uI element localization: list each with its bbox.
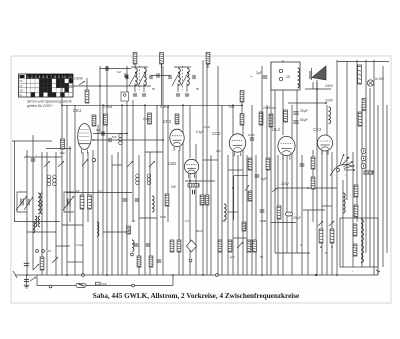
svg-text:0,1μF: 0,1μF xyxy=(196,130,204,134)
capacitor C58 xyxy=(96,282,101,285)
wire V22 xyxy=(149,152,151,275)
wire V45 xyxy=(270,62,272,275)
resistor R3 xyxy=(206,53,210,65)
terminal on bus B xyxy=(49,285,52,288)
wire V60 xyxy=(342,180,344,267)
svg-text:CF: CF xyxy=(19,85,23,88)
resistor R26 xyxy=(330,229,334,243)
resistor R29 xyxy=(137,256,141,267)
resistor R2 lead xyxy=(161,64,163,68)
wire V3 xyxy=(46,152,48,275)
junction d12 xyxy=(172,274,174,276)
wire V13 xyxy=(102,105,104,275)
IF transformer T1 tuning arrow 2 xyxy=(138,71,146,86)
capacitor C30 xyxy=(193,190,195,195)
svg-text:50μF: 50μF xyxy=(196,229,203,233)
pilot lamp 1 dot xyxy=(363,150,364,151)
tube pin terminal xyxy=(92,158,95,161)
jog i xyxy=(145,151,163,153)
resistor R13 xyxy=(266,158,270,170)
svg-text:CB: CB xyxy=(19,89,23,92)
bus end tick left xyxy=(13,271,17,278)
wire V66 xyxy=(369,88,371,267)
svg-text:2μF: 2μF xyxy=(256,71,262,75)
svg-text:20μF: 20μF xyxy=(293,216,301,220)
wire V28 xyxy=(189,105,191,158)
resistor R23 xyxy=(353,224,357,236)
svg-text:0,1: 0,1 xyxy=(96,128,100,132)
capacitor C11 xyxy=(125,73,127,77)
pilot lamp 3 xyxy=(361,164,366,169)
resistor R5 xyxy=(240,114,244,126)
choke coil xyxy=(343,193,345,213)
wire V12 xyxy=(97,125,99,275)
anode wire CK1 xyxy=(93,133,127,135)
wire V30 xyxy=(195,144,197,275)
IF transformer T2 trimmer cap 2 xyxy=(185,94,189,96)
wire V39 xyxy=(242,125,244,275)
field coil xyxy=(361,219,363,263)
IF feed wire xyxy=(100,68,131,70)
tube voltage table xyxy=(19,74,74,97)
svg-text:0,1: 0,1 xyxy=(98,189,102,193)
output transformer coil xyxy=(329,107,331,124)
svg-text:2×45 mA: 2×45 mA xyxy=(262,106,276,110)
wire V59 xyxy=(336,60,338,275)
svg-text:50μF: 50μF xyxy=(300,118,308,122)
fuse Si1 xyxy=(76,283,86,287)
wire V29 xyxy=(189,174,191,275)
wave coil W4 xyxy=(147,174,151,185)
capacitor C41 xyxy=(293,112,298,114)
return bus riser xyxy=(172,275,174,286)
resistor R11b xyxy=(148,113,152,124)
antenna coil L1b xyxy=(40,193,42,214)
resistor R17 xyxy=(362,99,366,111)
junction d24 xyxy=(307,187,309,189)
wire V64 xyxy=(361,105,363,267)
wire V58 xyxy=(331,152,333,275)
resistor R39 xyxy=(247,240,251,252)
IF transformer T2 secondary coil xyxy=(187,68,189,86)
wave coil W1 xyxy=(47,175,51,186)
junction d6 xyxy=(232,104,234,106)
resistor R43 xyxy=(61,139,65,149)
resistor R37 xyxy=(228,240,232,252)
pot arrow 2 xyxy=(329,221,334,226)
junction d13 xyxy=(202,274,204,276)
wire V63 xyxy=(356,60,358,222)
resistor R2 xyxy=(160,53,164,65)
cathode network wire xyxy=(271,222,296,224)
jog f xyxy=(139,217,157,219)
wire V55 xyxy=(316,82,318,275)
wire V2 xyxy=(41,152,43,275)
wire V70 xyxy=(386,105,388,253)
svg-text:0,2μF: 0,2μF xyxy=(203,125,210,129)
input circuit 2 tuning arrow xyxy=(63,196,74,210)
IF transformer T2 primary coil xyxy=(178,68,180,86)
HT wire 220V xyxy=(288,102,326,104)
resistor R1 xyxy=(133,53,137,65)
wire V40 xyxy=(246,155,248,275)
tube CB2 xyxy=(184,159,198,177)
svg-text:5nF: 5nF xyxy=(112,135,117,139)
wire V43 xyxy=(261,66,263,275)
svg-text:CL4: CL4 xyxy=(272,127,280,132)
schematic sheet frame xyxy=(11,56,391,303)
jog h xyxy=(322,205,332,207)
IF transformer T2 top wire xyxy=(174,66,191,68)
wire V0 xyxy=(26,150,28,275)
svg-text:8μF: 8μF xyxy=(60,151,65,155)
wire V56 xyxy=(321,148,323,275)
wire V26 xyxy=(178,150,180,275)
junction d9 xyxy=(126,133,128,135)
secondary drop wire xyxy=(307,210,309,275)
IF transformer T2 trimmer cap xyxy=(176,94,180,96)
capacitor C40 electrolytic xyxy=(285,212,292,216)
band switch S5 xyxy=(237,242,243,248)
resistor R1 lead xyxy=(134,64,136,68)
band switch S3 xyxy=(127,161,133,167)
resistor R7 xyxy=(85,90,89,103)
wire V19 xyxy=(132,100,134,222)
jog e xyxy=(56,245,70,247)
svg-text:5nF: 5nF xyxy=(101,283,107,287)
svg-text:5,2mA: 5,2mA xyxy=(160,105,169,109)
wire V44 xyxy=(266,105,268,275)
jog a xyxy=(203,159,218,161)
junction d16 xyxy=(106,274,108,276)
switch contact S7 xyxy=(245,185,249,191)
IF transformer T1 trimmer cap xyxy=(133,94,137,96)
wire V37 xyxy=(232,105,234,275)
capacitor C12 xyxy=(102,131,104,136)
resistor R19 xyxy=(311,157,315,169)
current arrow 6.13mA xyxy=(79,81,85,85)
svg-text:CF3: CF3 xyxy=(163,119,172,124)
coil L5 xyxy=(97,222,99,236)
filter coil W0 xyxy=(119,134,123,145)
capacitor C19 xyxy=(135,199,140,201)
gang arrow 2 xyxy=(24,197,33,210)
wire V68 xyxy=(377,105,379,275)
resistor R36 xyxy=(218,240,222,252)
svg-text:5μF: 5μF xyxy=(261,177,267,181)
resistor R16 mains xyxy=(358,65,362,84)
left rail xyxy=(14,141,16,222)
oscillator coil B xyxy=(38,216,40,227)
wire V34 xyxy=(217,66,219,275)
resistor R35 xyxy=(177,240,181,252)
resistor R6c xyxy=(284,110,288,122)
tuner link wire xyxy=(27,231,56,233)
wire V41 xyxy=(251,105,253,275)
IF transformer T2 tuning arrow 1 xyxy=(172,71,180,86)
svg-text:2nF: 2nF xyxy=(171,185,177,189)
tuner section top wire xyxy=(66,192,132,194)
pot arrow 1 xyxy=(318,221,323,226)
junction d22 xyxy=(189,180,191,182)
IF transformer T1 secondary coil xyxy=(144,68,146,86)
resistor R31 xyxy=(165,194,169,206)
svg-text:50: 50 xyxy=(260,255,264,259)
wire V32 xyxy=(206,64,208,275)
wire V67 xyxy=(373,60,375,275)
input circuit 1 bracket xyxy=(17,192,27,212)
dial lamp La xyxy=(367,80,373,86)
svg-text:Strom-und Spannungswerte: Strom-und Spannungswerte xyxy=(27,99,72,103)
IF transformer T1 input cap xyxy=(126,75,128,79)
band switch S2b xyxy=(82,159,88,166)
svg-text:CC2: CC2 xyxy=(212,131,221,136)
resistor R40 xyxy=(253,240,257,252)
IF transformer T1 top wire xyxy=(131,66,148,68)
wire V61 xyxy=(346,62,348,201)
resistor R12 xyxy=(248,158,252,170)
pilot lamp 3 dot xyxy=(363,165,364,166)
cathode return wire xyxy=(275,252,310,254)
mains dropper coil xyxy=(298,68,300,88)
svg-text:•: • xyxy=(36,153,37,157)
lower return bus wire xyxy=(37,285,173,287)
junction d1 xyxy=(61,104,63,106)
wire V69 xyxy=(382,66,384,267)
IF transformer T1 trimmer cap 2 xyxy=(142,94,146,96)
junction terminal C xyxy=(216,274,219,277)
resistor R9 xyxy=(188,184,199,187)
wire V4 xyxy=(55,152,57,275)
capacitor C21 xyxy=(146,244,151,246)
jog j xyxy=(228,211,238,213)
resistor R27 xyxy=(40,257,44,270)
IF transformer T1 primary coil xyxy=(135,68,137,86)
shield box xyxy=(121,92,129,101)
wire V24 xyxy=(162,66,164,275)
wire V7 xyxy=(69,146,71,222)
resistor R21 xyxy=(354,185,358,197)
AVC line xyxy=(62,85,151,87)
wire V51 xyxy=(291,105,293,275)
svg-text:7mA: 7mA xyxy=(228,105,235,109)
wire V65 xyxy=(365,60,367,253)
tuner top wire xyxy=(14,221,60,223)
svg-text:4nF: 4nF xyxy=(75,189,80,193)
capacitor C13 xyxy=(109,138,111,143)
resistor R20 xyxy=(311,177,315,189)
wire V47 xyxy=(277,155,279,275)
AGC return wire xyxy=(12,140,52,142)
capacitor C18 xyxy=(123,199,128,201)
wire V48 xyxy=(282,60,284,135)
R25 bottom dot xyxy=(320,246,322,248)
terminal below diamond xyxy=(189,259,192,262)
svg-text:2,7mA: 2,7mA xyxy=(102,105,112,109)
band switch S4 xyxy=(149,161,155,167)
capacitor C14 xyxy=(157,73,159,77)
grid wire CK1 xyxy=(93,139,163,141)
junction d21 xyxy=(325,102,327,104)
IF transformer T1 tuning arrow 1 xyxy=(129,71,137,86)
svg-text:CK: CK xyxy=(19,80,23,83)
resistor R33 xyxy=(205,195,209,205)
wire V49 xyxy=(282,155,284,275)
loudspeaker xyxy=(310,66,326,80)
tuning indicator diamond xyxy=(187,240,197,252)
junction dot D xyxy=(315,274,317,276)
capacitor C3 xyxy=(31,159,36,161)
junction d7 xyxy=(61,85,63,87)
svg-text:4nF: 4nF xyxy=(216,149,221,153)
wire V10 xyxy=(87,152,89,222)
junction d2 xyxy=(102,104,104,106)
wire V23 xyxy=(156,105,158,275)
terminal K1 xyxy=(36,250,39,253)
rectifier terminal 1 xyxy=(279,69,282,72)
svg-text:CB2: CB2 xyxy=(168,161,177,166)
resistor R3 lead xyxy=(207,64,209,68)
terminal L7 xyxy=(131,253,134,256)
resistor R10 xyxy=(92,115,96,126)
resistor R4 xyxy=(240,91,244,103)
svg-text:•: • xyxy=(352,269,353,273)
power top rail xyxy=(337,61,389,63)
rectifier terminal 2 xyxy=(279,77,282,80)
IF transformer T2 output cap xyxy=(193,75,195,79)
capacitor C44 xyxy=(263,76,268,78)
wire V38 xyxy=(237,155,239,275)
R26 bottom dot xyxy=(331,246,333,248)
wire V54 xyxy=(312,150,314,222)
bus end tick right xyxy=(377,271,379,275)
oscillator coil A xyxy=(35,216,37,227)
speaker lead 2 xyxy=(312,82,314,89)
output grid wire xyxy=(277,187,337,189)
junction d15 xyxy=(336,274,338,276)
svg-text:1M: 1M xyxy=(117,70,122,74)
capacitor C25 xyxy=(260,210,265,212)
screen supply line xyxy=(62,104,243,106)
R7 top lead xyxy=(86,78,88,90)
wire V20 xyxy=(138,155,140,275)
band switch S6 xyxy=(52,257,58,263)
resistor R14 xyxy=(248,191,252,201)
resistor R6b xyxy=(269,114,273,127)
wire V42 xyxy=(255,155,257,275)
wire V57 xyxy=(326,105,328,275)
svg-text:30μF: 30μF xyxy=(300,109,308,113)
wire V14 xyxy=(106,66,108,275)
tube CC2 xyxy=(229,134,245,156)
transformer secondary wire xyxy=(303,209,325,211)
junction d4 xyxy=(144,104,146,106)
svg-text:π: π xyxy=(300,243,302,247)
jog g xyxy=(112,164,122,166)
feedback box xyxy=(234,175,248,177)
junction d18 xyxy=(26,274,28,276)
IF transformer T2 screen divider xyxy=(182,66,184,90)
pilot lamp 1 xyxy=(361,149,366,154)
wire V52 xyxy=(296,90,298,253)
capacitor C20 xyxy=(134,244,139,246)
resistor R30 xyxy=(149,256,153,267)
svg-text:0,3: 0,3 xyxy=(185,219,189,223)
wire V31 xyxy=(202,60,204,275)
resistor R41 xyxy=(80,195,84,209)
field coil frame xyxy=(340,218,378,267)
jog d xyxy=(103,231,127,233)
capacitor C10 xyxy=(106,66,108,70)
resistor R28 xyxy=(127,226,131,234)
tube CL4 xyxy=(278,136,295,159)
svg-text:215V: 215V xyxy=(280,182,290,186)
capacitor C22 xyxy=(157,260,162,262)
junction d5 xyxy=(182,104,184,106)
junction d19 xyxy=(241,104,243,106)
wave coil W3 xyxy=(136,174,140,185)
svg-text:~: ~ xyxy=(250,74,253,79)
pilot lamp 2 xyxy=(361,156,366,161)
wire V16 xyxy=(117,152,119,275)
svg-text:220V: 220V xyxy=(324,99,334,103)
IF transformer T1 output cap xyxy=(150,75,152,79)
svg-text:30: 30 xyxy=(132,219,136,223)
wire V5 xyxy=(61,86,63,275)
svg-text:0,1μF: 0,1μF xyxy=(143,117,150,121)
input circuit 2 gang capacitor xyxy=(68,199,70,206)
junction d10 xyxy=(92,139,94,141)
coupling coil L3 xyxy=(152,196,154,212)
tube CY1 xyxy=(317,135,332,155)
ground at mains xyxy=(24,283,30,288)
junction d20 xyxy=(316,88,318,90)
svg-text:0,5M: 0,5M xyxy=(260,219,267,223)
wire V35 xyxy=(221,105,223,275)
svg-text:50: 50 xyxy=(152,87,156,91)
resistor R34 xyxy=(170,240,174,252)
svg-text:50: 50 xyxy=(196,87,200,91)
jog c xyxy=(62,224,83,226)
IF transformer T2 input cap xyxy=(169,75,171,79)
pilot lamp 2 dot xyxy=(363,158,364,159)
resistor R18 xyxy=(364,171,373,174)
wire V21 xyxy=(144,105,146,275)
jog k xyxy=(67,261,83,263)
rectifier box Gl xyxy=(271,62,300,90)
svg-text:•: • xyxy=(345,173,346,177)
resistor R11 xyxy=(104,114,108,125)
capacitor C26 xyxy=(255,175,260,177)
svg-text:10μF: 10μF xyxy=(248,133,255,137)
wire V9 xyxy=(82,152,84,275)
tuner coil L6 xyxy=(33,222,35,233)
detector wire xyxy=(185,180,215,182)
IF transformer T1 screen divider xyxy=(139,66,141,90)
switch contact S9 xyxy=(30,277,36,281)
svg-text:0,1μF: 0,1μF xyxy=(76,243,83,247)
resistor R15 xyxy=(277,206,281,219)
wire V18 xyxy=(126,66,128,275)
wire V6 xyxy=(66,105,68,275)
capacitor C42 xyxy=(293,121,298,123)
tube CK1 xyxy=(78,124,92,154)
wire V17 xyxy=(121,105,123,275)
junction d17 xyxy=(66,274,68,276)
gang section cap 2 xyxy=(27,199,29,206)
svg-text:1 2 3 4 5 6 7 8 9 10 11: 1 2 3 4 5 6 7 8 9 10 11 xyxy=(27,75,72,79)
capacitor C27 xyxy=(300,164,305,166)
